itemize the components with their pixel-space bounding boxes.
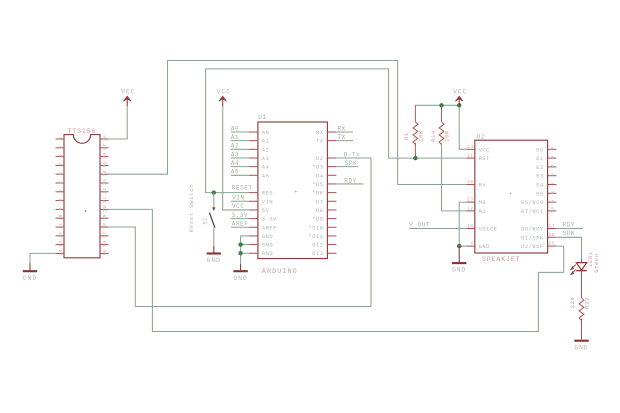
svg-text:R14: R14 — [431, 130, 437, 142]
wire net BUF: TTS256 pin20 to SPEAKJET D2/BUF pin15 — [109, 209, 564, 331]
switch S1 (reset switch) — [209, 193, 215, 246]
junction VCC rail — [457, 103, 461, 107]
svg-text:6: 6 — [58, 180, 64, 183]
wire stub ARDUINO VIN with net label VIN — [231, 200, 249, 202]
U1 right pin stubs and names — [308, 130, 336, 257]
svg-text:10: 10 — [58, 214, 64, 220]
svg-text:VCC: VCC — [217, 89, 231, 96]
wire LED1 cathode to resistor R23 — [581, 271, 583, 298]
power symbol VCC (at TTS256) — [121, 89, 135, 107]
svg-text:A5: A5 — [231, 169, 239, 176]
svg-text:U2: U2 — [477, 134, 485, 141]
svg-text:*D5: *D5 — [312, 182, 323, 188]
svg-text:D4: D4 — [316, 173, 324, 179]
svg-text:U1: U1 — [258, 114, 266, 121]
svg-text:D2/BUF: D2/BUF — [521, 244, 544, 250]
wire stub ARDUINO A0 with net label A0 — [231, 131, 249, 133]
svg-text:13: 13 — [467, 197, 474, 203]
svg-text:18: 18 — [102, 223, 108, 229]
svg-text:18: 18 — [548, 232, 555, 238]
svg-text:3.3V: 3.3V — [262, 217, 277, 223]
svg-text:D8: D8 — [316, 208, 324, 214]
svg-text:17: 17 — [548, 223, 555, 229]
svg-text:A0: A0 — [231, 125, 239, 132]
wire R23 to ground — [581, 319, 583, 340]
svg-text:16: 16 — [467, 223, 474, 229]
svg-text:1: 1 — [58, 136, 64, 139]
svg-text:14: 14 — [467, 144, 474, 150]
svg-text:GND: GND — [262, 251, 273, 257]
svg-text:14: 14 — [58, 249, 64, 255]
resistor R23 220 — [570, 297, 591, 321]
svg-text:GND: GND — [479, 244, 490, 250]
wire ARDUINO GND pins to ground — [241, 236, 249, 264]
svg-text:7: 7 — [58, 189, 64, 192]
U2 right D-pin stubs, numbers and names — [521, 223, 556, 250]
svg-text:Green: Green — [594, 253, 600, 272]
svg-text:13: 13 — [550, 207, 556, 213]
svg-text:ARDUINO: ARDUINO — [262, 268, 298, 275]
svg-text:TTS256: TTS256 — [68, 128, 97, 135]
svg-text:RX: RX — [338, 125, 346, 132]
svg-text:S1: S1 — [203, 217, 209, 225]
svg-text:E2: E2 — [536, 165, 544, 171]
wire stub ARDUINO AREF with net label AREF — [231, 226, 249, 228]
svg-text:5V: 5V — [262, 208, 270, 214]
svg-text:A3: A3 — [262, 156, 270, 162]
svg-text:E5: E5 — [536, 191, 544, 197]
IC U1 ARDUINO body — [258, 122, 328, 259]
svg-text:TX: TX — [338, 134, 346, 141]
svg-text:7: 7 — [550, 182, 556, 185]
svg-text:15: 15 — [548, 241, 555, 247]
svg-text:RDY: RDY — [344, 177, 356, 184]
svg-text:TX: TX — [316, 139, 324, 145]
svg-text:22: 22 — [102, 188, 108, 194]
svg-text:4: 4 — [550, 164, 556, 167]
LED LED1 Green — [571, 259, 587, 275]
svg-text:GND: GND — [234, 275, 248, 282]
svg-text:D0/RDY: D0/RDY — [521, 227, 544, 233]
svg-text:VCC: VCC — [232, 203, 244, 210]
svg-text:17: 17 — [102, 232, 108, 238]
svg-text:E0: E0 — [536, 147, 544, 153]
wire stub ARDUINO A3 with net label A3 — [231, 157, 249, 159]
svg-text:19: 19 — [102, 214, 108, 220]
svg-text:16: 16 — [102, 240, 108, 246]
svg-text:V_OUT: V_OUT — [409, 222, 430, 229]
svg-text:11: 11 — [58, 223, 64, 229]
svg-text:A5: A5 — [262, 173, 270, 179]
svg-text:2: 2 — [58, 145, 64, 148]
svg-text:E6/RC0: E6/RC0 — [521, 200, 544, 206]
svg-text:VCC: VCC — [453, 89, 467, 96]
svg-text:A2: A2 — [231, 143, 239, 150]
wire net SPK: SPEAKJET D1/SPK to LED1 — [556, 237, 581, 258]
junction RESET node at switch — [212, 190, 216, 194]
wire SPEAKJET M0 pin13 to ground node — [459, 202, 466, 246]
svg-text:*D10: *D10 — [308, 225, 323, 231]
svg-text:A0: A0 — [262, 130, 270, 136]
svg-text:AREF: AREF — [262, 225, 277, 231]
svg-text:220: 220 — [570, 297, 576, 309]
svg-text:RDY: RDY — [563, 221, 575, 228]
wire stub ARDUINO A2 with net label A2 — [231, 148, 249, 150]
svg-text:+: + — [294, 190, 297, 196]
svg-text:LED1: LED1 — [588, 251, 594, 266]
svg-text:*D3: *D3 — [312, 165, 323, 171]
resistor R1 10K — [404, 105, 425, 158]
svg-text:8: 8 — [58, 198, 64, 201]
svg-text:8: 8 — [550, 191, 556, 194]
power symbol VCC (at SPEAKJET) — [453, 89, 467, 107]
svg-text:GND: GND — [262, 234, 273, 240]
svg-text:A2: A2 — [262, 147, 270, 153]
svg-text:11: 11 — [467, 153, 474, 159]
svg-text:A3: A3 — [231, 151, 239, 158]
svg-text:26: 26 — [102, 152, 108, 158]
svg-text:13: 13 — [58, 240, 64, 246]
junction ARDUINO GND2 — [238, 242, 242, 246]
svg-text:9: 9 — [58, 207, 64, 210]
wire SPEAKJET GND pin6 to ground — [459, 245, 466, 247]
wire stub ARDUINO RX with net label RX — [336, 131, 353, 133]
wire stub SPEAKJET VOICE with net label V_OUT — [409, 228, 466, 230]
wire VCC symbol to ARDUINO 5V pin — [223, 106, 249, 210]
U2 left pin stubs, numbers and names — [466, 144, 497, 250]
svg-text:RES: RES — [262, 191, 273, 197]
svg-text:23: 23 — [102, 179, 108, 185]
svg-text:Rx: Rx — [479, 183, 487, 189]
svg-text:GND: GND — [574, 344, 588, 351]
svg-text:27: 27 — [102, 144, 108, 150]
wire stub ARDUINO A5 with net label A5 — [231, 174, 249, 176]
svg-text:GND: GND — [207, 257, 221, 264]
wire stub ARDUINO TX with net label TX — [336, 140, 353, 142]
power symbol VCC (at ARDUINO) — [217, 89, 231, 107]
svg-text:E1: E1 — [536, 156, 544, 162]
svg-text:10K: 10K — [445, 130, 451, 142]
ground symbol GND (at switch S1) — [207, 246, 221, 264]
junction M0/GND node — [457, 244, 461, 248]
svg-text:A1: A1 — [262, 139, 270, 145]
TTS256 left pin stubs with pin numbers 1-14 — [56, 136, 65, 255]
svg-text:A4: A4 — [231, 160, 239, 167]
svg-text:E7/RC1: E7/RC1 — [521, 209, 544, 215]
svg-text:R1: R1 — [404, 132, 410, 140]
svg-text:10: 10 — [467, 179, 474, 185]
svg-text:SPK: SPK — [345, 160, 357, 167]
ground symbol GND (at LED) — [574, 341, 588, 352]
wire TTS256 pin28 to VCC — [109, 106, 128, 139]
svg-text:12: 12 — [467, 206, 474, 212]
svg-text:D13: D13 — [312, 251, 323, 257]
svg-text:12: 12 — [58, 232, 64, 238]
svg-text:VCC: VCC — [479, 147, 490, 153]
svg-text:RST: RST — [479, 156, 491, 162]
svg-text:AREF: AREF — [232, 221, 249, 228]
svg-text:GND: GND — [262, 243, 273, 249]
svg-text:5: 5 — [550, 173, 556, 176]
svg-text:VOICE: VOICE — [479, 227, 498, 233]
junction R14 top — [439, 103, 443, 107]
svg-text:5: 5 — [58, 172, 64, 175]
ground symbol GND (at TTS256) — [23, 263, 37, 282]
junction ARDUINO GND3 — [238, 251, 242, 255]
svg-text:3.3V: 3.3V — [231, 212, 248, 219]
U2 right E-pin stubs with rotated pin numbers — [521, 147, 556, 215]
ground symbol GND (at SPEAKJET) — [452, 246, 466, 274]
svg-text:M0: M0 — [479, 200, 487, 206]
svg-text:E4: E4 — [536, 183, 544, 189]
wire stub SPEAKJET D0/RDY with net label RDY — [556, 228, 583, 230]
svg-text:D1/SPK: D1/SPK — [521, 235, 544, 241]
svg-text:6: 6 — [470, 241, 473, 247]
wire stub ARDUINO D3 with net label SPK — [336, 166, 358, 168]
IC TTS256 body — [64, 135, 100, 258]
wire net TX: TTS256 pin24 to SPEAKJET Rx pin10 — [109, 61, 467, 185]
svg-text:9: 9 — [550, 200, 556, 203]
svg-text:SPEAKJET: SPEAKJET — [482, 256, 520, 263]
svg-text:15: 15 — [102, 249, 108, 255]
svg-text:D7: D7 — [316, 199, 324, 205]
svg-text:28: 28 — [102, 135, 108, 141]
wire stub ARDUINO D5 with net label RDY — [336, 183, 363, 185]
wire net RESET: switch junction to ARDUINO RES and SPEAKJET RST — [206, 69, 467, 193]
ground symbol GND (at ARDUINO) — [233, 264, 247, 282]
svg-text:GND: GND — [23, 275, 37, 282]
svg-text:A4: A4 — [262, 165, 270, 171]
svg-text:VCC: VCC — [121, 89, 135, 96]
svg-text:21: 21 — [102, 196, 108, 202]
svg-text:3: 3 — [58, 154, 64, 157]
svg-text:24: 24 — [102, 170, 108, 176]
wire net D-TX: TTS256 pin18 to ARDUINO D2 — [109, 158, 372, 307]
svg-text:VIN: VIN — [262, 199, 273, 205]
svg-text:A1: A1 — [231, 134, 239, 141]
svg-text:Reset Switch: Reset Switch — [188, 184, 195, 233]
svg-text:*D6: *D6 — [312, 191, 323, 197]
svg-text:*D11: *D11 — [308, 234, 323, 240]
wire VCC rail to resistors R1 R14 and SPEAKJET VCC pin14 — [415, 104, 459, 106]
svg-text:R23: R23 — [585, 297, 591, 309]
svg-text:M1: M1 — [479, 209, 487, 215]
svg-text:25: 25 — [102, 161, 108, 167]
wire stub ARDUINO A1 with net label A1 — [231, 140, 249, 142]
svg-text:GND: GND — [452, 267, 466, 274]
wire stub ARDUINO A4 with net label A4 — [231, 166, 249, 168]
svg-text:D12: D12 — [312, 243, 323, 249]
wire R14 bottom to SPEAKJET M1 pin12 — [442, 143, 467, 211]
svg-text:+: + — [509, 192, 512, 198]
svg-text:D-Tx: D-Tx — [344, 151, 361, 158]
TTS256 right pin stubs with pin numbers 28-15 — [100, 135, 109, 256]
U1 left pin stubs and names — [249, 130, 277, 257]
resistor R14 10K — [431, 105, 451, 144]
svg-text:10K: 10K — [418, 130, 424, 142]
svg-text:*D9: *D9 — [312, 217, 323, 223]
junction R1 bottom on RST net — [413, 156, 417, 160]
IC U2 SPEAKJET body — [475, 140, 548, 253]
svg-text:RESET: RESET — [232, 184, 253, 191]
svg-text:D2: D2 — [316, 156, 324, 162]
svg-text:4: 4 — [58, 163, 64, 166]
svg-text:20: 20 — [102, 205, 108, 211]
svg-text:RX: RX — [316, 130, 324, 136]
svg-text:2: 2 — [550, 147, 556, 150]
wire TTS256 pin14 to ground — [30, 253, 56, 263]
svg-text:VIN: VIN — [232, 195, 244, 202]
svg-text:SPK: SPK — [563, 230, 575, 237]
svg-text:E3: E3 — [536, 174, 544, 180]
svg-text:3: 3 — [550, 156, 556, 159]
wire stub ARDUINO 3.3V with net label 3.3V — [231, 218, 249, 220]
